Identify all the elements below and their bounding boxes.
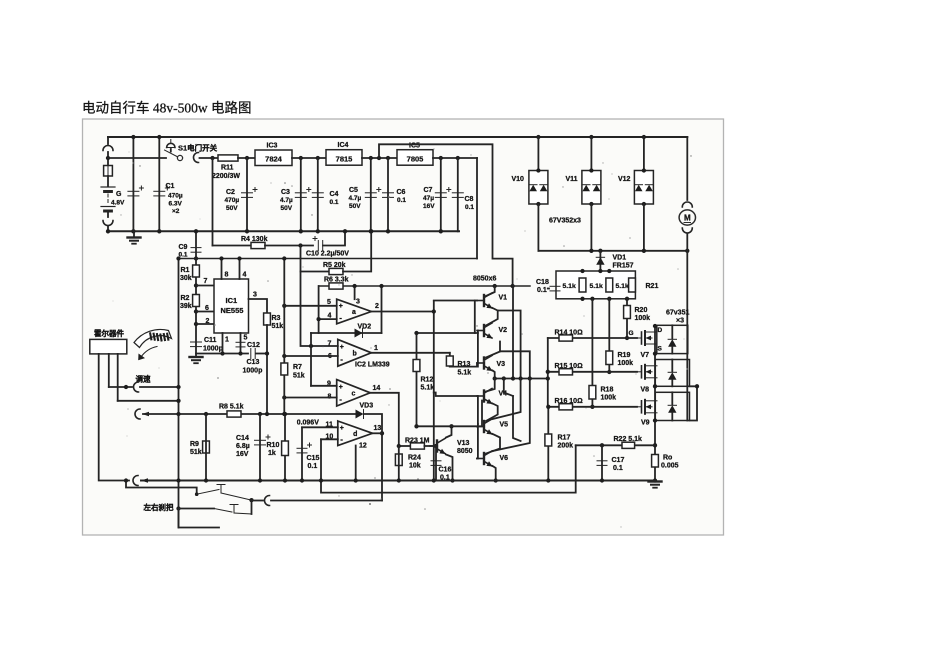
svg-text:1: 1 <box>225 337 229 344</box>
resistor R22 <box>622 442 635 448</box>
svg-text:3: 3 <box>253 292 257 299</box>
node box top c <box>607 269 611 273</box>
wire R12 vertical <box>416 333 418 426</box>
node gnd rail C2 <box>245 229 249 233</box>
wire C14 vertical <box>259 414 261 481</box>
capacitor C6 <box>383 193 394 198</box>
node gnd C5 <box>369 229 373 233</box>
resistor R14 <box>559 335 573 341</box>
svg-text:R23 1M: R23 1M <box>405 438 430 445</box>
wire V1 base feed <box>434 300 475 302</box>
wire col riser d <box>513 396 521 441</box>
svg-text:NE555: NE555 <box>221 306 244 315</box>
capacitor C11 <box>191 342 202 347</box>
regulator IC4 7815 box <box>326 150 362 166</box>
wire comp-d plus input <box>302 426 338 428</box>
wire C2 vertical <box>246 158 248 231</box>
wire hook to fuse <box>107 152 109 166</box>
node C17 top <box>600 443 604 447</box>
wire V3 base feed <box>450 363 477 367</box>
op-amp IC2c <box>337 380 371 406</box>
wire VD1 lead <box>599 251 601 271</box>
resistor R2 <box>193 295 200 307</box>
svg-text:R5 20k: R5 20k <box>323 262 346 269</box>
node bottom rail x285 <box>283 478 287 482</box>
MOSFET V9 <box>634 400 657 414</box>
wire C16 vertical <box>435 446 437 481</box>
svg-text:C12: C12 <box>247 342 260 349</box>
svg-text:50V: 50V <box>226 205 238 212</box>
node gnd C6 <box>386 229 390 233</box>
capacitor C13 <box>251 349 255 359</box>
node R23 left <box>397 444 401 448</box>
svg-text:7: 7 <box>204 278 208 285</box>
wire comp-c minus input <box>284 397 336 399</box>
svg-text:R1: R1 <box>181 267 190 274</box>
MOSFET V8 <box>634 365 657 379</box>
switch S1 blade <box>165 150 178 157</box>
node R4/R5 junction <box>298 243 302 247</box>
node bottom rail x602 <box>600 478 604 482</box>
svg-text:b: b <box>353 350 357 357</box>
wire diode V7 lead b <box>671 347 673 354</box>
svg-text:51k: 51k <box>190 449 202 456</box>
wire R14 row <box>548 337 627 339</box>
schematic frame <box>83 119 724 535</box>
svg-text:6.3V: 6.3V <box>169 201 183 208</box>
node box bottom d <box>625 297 629 301</box>
svg-text:16V: 16V <box>236 451 249 458</box>
wire comp-c out <box>370 393 399 446</box>
diode VD3 <box>356 410 364 419</box>
svg-text:R2: R2 <box>181 295 190 302</box>
node R8 row R7 <box>282 412 286 416</box>
svg-text:IC3: IC3 <box>267 143 278 150</box>
node C5 top <box>369 156 373 160</box>
brake switch 2 <box>214 505 252 515</box>
wire V4 base feed <box>434 393 477 397</box>
wire R5 to gnd <box>343 231 371 271</box>
svg-text:4.7µ: 4.7µ <box>349 195 362 202</box>
MOSFET V7 <box>634 331 657 345</box>
wire diode V8 lead b <box>671 380 673 387</box>
wire V6 emitter drop <box>493 466 496 481</box>
wire switch feed <box>108 157 166 159</box>
capacitor C4 <box>312 193 323 198</box>
wire V5 emitter chain <box>486 434 500 454</box>
wire VD2 anode drop <box>310 333 312 386</box>
svg-text:39k: 39k <box>180 303 192 310</box>
svg-text:R13: R13 <box>458 361 471 368</box>
node speed tap <box>176 385 180 389</box>
wire comp-d fb loop <box>321 439 576 492</box>
wire motor drop <box>686 137 688 200</box>
svg-text:C4: C4 <box>330 191 339 198</box>
svg-text:G: G <box>629 330 634 337</box>
motor M <box>679 210 695 225</box>
svg-text:8: 8 <box>225 272 229 279</box>
resistor R4 <box>251 242 265 248</box>
wire IC4 to IC5 <box>362 157 397 159</box>
wire source rail <box>654 325 656 480</box>
capacitor C1 cell b <box>154 186 170 196</box>
arrow into hook R8 row <box>142 412 149 416</box>
svg-text:VD3: VD3 <box>360 403 374 410</box>
node emitters to gates <box>546 376 550 380</box>
diode V12 right <box>645 185 653 192</box>
svg-text:V9: V9 <box>641 420 650 427</box>
wire C18 stub <box>548 288 549 290</box>
resistor R24 <box>395 454 402 466</box>
wire R4 to C10 <box>265 245 313 247</box>
svg-text:470µ: 470µ <box>225 197 240 204</box>
svg-text:7805: 7805 <box>407 154 424 163</box>
capacitor C8 <box>452 193 463 198</box>
connector hook motor bottom <box>682 228 692 233</box>
wire C8 vertical <box>457 158 459 231</box>
wire C7 vertical <box>440 158 442 231</box>
svg-text:+: + <box>339 303 343 310</box>
node hall row tap <box>176 399 180 403</box>
wire comp-a minus input <box>319 318 337 320</box>
wire base rail 15V <box>319 285 530 287</box>
node R15 left <box>546 370 550 374</box>
node gnd C10 <box>343 229 347 233</box>
wire V1 base link <box>475 301 477 334</box>
wire IC3 to IC4 <box>292 157 326 159</box>
diode across V8 <box>668 372 676 379</box>
wire brake stub L <box>179 509 220 528</box>
svg-text:67V352x3: 67V352x3 <box>549 218 581 225</box>
resistor R19 <box>606 351 613 365</box>
diode across V9 <box>668 405 676 412</box>
wire comp-d out stub <box>373 432 383 434</box>
node box bottom a <box>580 297 584 301</box>
wire VD2 row <box>311 332 382 334</box>
arrow into bottom hook <box>141 478 148 482</box>
wire R23 to base <box>424 445 435 447</box>
wire V2 base feed row <box>417 332 478 334</box>
wire ground stub <box>133 231 135 236</box>
capacitor C9 <box>191 248 201 253</box>
resistor R23 <box>410 443 424 449</box>
svg-text:51k: 51k <box>272 323 284 330</box>
node gate V7 <box>625 336 629 340</box>
resistor R7 <box>281 363 288 375</box>
svg-text:1k: 1k <box>268 450 276 457</box>
svg-text:V10: V10 <box>512 176 525 183</box>
resistor R6 <box>329 283 343 289</box>
wire V13 collector row <box>417 401 483 427</box>
capacitor C15 <box>297 443 312 453</box>
svg-text:R8 5.1k: R8 5.1k <box>219 404 244 411</box>
wire R1 chain vertical <box>195 259 197 357</box>
node V13 collector row <box>449 424 453 428</box>
node rail V1 <box>493 284 497 288</box>
svg-text:R11: R11 <box>221 165 234 172</box>
node bottom rail x321 <box>319 478 323 482</box>
svg-text:2200/3W: 2200/3W <box>212 173 240 180</box>
svg-text:C16: C16 <box>439 467 452 474</box>
resistor Ro <box>652 455 659 468</box>
wire V13 collector riser <box>446 426 452 437</box>
wire brake to hook <box>252 500 264 502</box>
diode V11 right <box>593 185 601 192</box>
diode pair V12 box <box>634 171 653 205</box>
svg-text:R3: R3 <box>272 315 281 322</box>
wire box2 right ext <box>690 386 698 420</box>
node drain top <box>653 324 657 328</box>
svg-text:C9: C9 <box>179 244 188 251</box>
wire V12 bottom lead <box>643 204 645 251</box>
svg-text:1000p: 1000p <box>203 346 223 353</box>
battery dashed middle <box>107 194 109 204</box>
node R17 top <box>546 405 550 409</box>
svg-text:+: + <box>339 384 343 391</box>
wire R17 vertical <box>547 407 549 481</box>
wire V4 base link <box>477 396 479 424</box>
capacitor C16 <box>431 461 441 466</box>
svg-text:5: 5 <box>244 335 248 342</box>
node rail C1a top <box>131 135 135 139</box>
svg-text:M: M <box>684 214 691 223</box>
wire comp-d minus input <box>321 438 338 440</box>
node V1 base net <box>432 309 436 313</box>
wire battery left drop <box>107 137 109 144</box>
node C3 top <box>299 156 303 160</box>
wire comp-b minus input <box>284 355 338 357</box>
svg-text:C1: C1 <box>166 183 175 190</box>
wire GND bottom rail <box>108 230 459 232</box>
node C8 top <box>456 156 460 160</box>
svg-text:V3: V3 <box>497 361 506 368</box>
wire switch to R11 <box>200 157 219 159</box>
regulator IC5 7805 box <box>397 150 433 166</box>
wire hall lead 3 <box>117 354 119 401</box>
connector hook motor top <box>682 202 692 207</box>
node 5V row at C9/R1 <box>194 256 198 260</box>
svg-text:0.1: 0.1 <box>330 199 339 206</box>
connector hook R8 row <box>135 409 140 419</box>
node C7 top <box>439 156 443 160</box>
resistor 5.1k c <box>629 278 636 292</box>
svg-text:100k: 100k <box>618 360 634 367</box>
svg-text:FR157: FR157 <box>613 263 634 270</box>
node 5V pin8 <box>219 256 223 260</box>
svg-text:C2: C2 <box>226 189 235 196</box>
svg-text:a: a <box>352 309 356 316</box>
svg-text:R9: R9 <box>190 441 199 448</box>
node R8 row R9 <box>204 412 208 416</box>
node gnd C9 <box>194 229 198 233</box>
svg-text:V5: V5 <box>500 422 509 429</box>
wire V3 emitter to row <box>493 371 495 379</box>
node bottom rail x548.3 <box>546 478 550 482</box>
node bus V11 <box>589 249 593 253</box>
svg-text:IC4: IC4 <box>338 142 349 149</box>
svg-text:V8: V8 <box>641 387 650 394</box>
wire bottom common rail <box>141 480 655 482</box>
node pin7 junction <box>194 283 198 287</box>
node src c <box>653 418 657 422</box>
svg-text:7824: 7824 <box>265 155 283 164</box>
wire V5 base link <box>476 424 479 427</box>
wire rail to row riser <box>512 286 514 379</box>
connector hook brake <box>265 496 270 506</box>
svg-text:2: 2 <box>375 303 379 310</box>
wire diode V9 lead b <box>671 413 673 421</box>
battery G plates top cell <box>101 187 115 192</box>
node row e4 <box>518 376 522 380</box>
svg-text:R14 10Ω: R14 10Ω <box>555 330 584 337</box>
wire comp-d gnd pin <box>355 446 357 481</box>
svg-text:12: 12 <box>359 443 367 450</box>
wire C3 vertical <box>300 158 302 231</box>
node rail V11 <box>589 135 593 139</box>
resistor R12 <box>413 360 420 372</box>
wire R8 row <box>143 413 355 415</box>
node C6 top <box>386 156 390 160</box>
node gnd C3 <box>299 229 303 233</box>
wire comp-b out <box>371 352 450 354</box>
resistor R8 <box>227 411 241 417</box>
wire R19 vertical <box>608 299 610 372</box>
svg-text:5.1k: 5.1k <box>563 283 576 290</box>
node bottom rail x398.8 <box>397 478 401 482</box>
capacitor C7 <box>435 188 451 198</box>
wire comp-a fb tap <box>354 286 356 299</box>
wire V1 collector <box>486 286 495 296</box>
svg-text:16V: 16V <box>423 203 435 210</box>
wire divider reference drop <box>301 272 338 347</box>
node gnd V13e <box>450 478 454 482</box>
gate resistor box <box>556 271 635 299</box>
node 5V pin4 <box>237 256 241 260</box>
node row e1 <box>493 376 497 380</box>
wire R3 down <box>266 325 268 414</box>
svg-text:C13: C13 <box>247 359 260 366</box>
svg-text:S: S <box>658 346 663 353</box>
svg-text:47µ: 47µ <box>423 195 434 202</box>
resistor 5.1k b <box>606 278 613 292</box>
svg-text:G: G <box>116 191 122 198</box>
node box2 ext <box>695 384 699 388</box>
resistor 5.1k a <box>579 278 586 292</box>
svg-text:4.8V: 4.8V <box>111 200 125 207</box>
wire diode V7 leads <box>671 325 673 338</box>
node pin5 bottom <box>238 351 242 355</box>
svg-text:C7: C7 <box>424 187 433 194</box>
svg-text:-: - <box>340 355 343 364</box>
wire V5 collector riser <box>493 379 521 420</box>
node rail V10 <box>536 135 540 139</box>
svg-text:R18: R18 <box>601 387 614 394</box>
wire R18 vertical <box>591 299 593 407</box>
node gate V8 node <box>607 370 611 374</box>
wire 48V tap down to R4 <box>212 158 214 246</box>
node row e5 <box>528 376 532 380</box>
svg-text:10k: 10k <box>409 463 421 470</box>
svg-text:7: 7 <box>328 341 332 348</box>
flyback box V7 <box>657 325 688 353</box>
wire pin5 drop <box>240 333 242 354</box>
wire hall lead3 row <box>118 400 179 402</box>
svg-text:1: 1 <box>374 345 378 352</box>
node C4 top <box>316 156 320 160</box>
wire V4 collector <box>486 379 495 392</box>
svg-text:c: c <box>351 390 355 397</box>
wire comp-c plus input <box>311 385 337 387</box>
capacitor C10 <box>313 237 323 251</box>
wire R22 row <box>576 444 655 446</box>
bell icon of switch S1 <box>167 140 175 152</box>
node R12 bottom <box>414 424 418 428</box>
wire phase bus <box>538 250 687 252</box>
svg-text:C18: C18 <box>536 279 549 286</box>
svg-text:0.005: 0.005 <box>661 463 679 470</box>
node gnd rail C1b <box>157 229 161 233</box>
node box bottom c <box>607 297 611 301</box>
node gnd C4 <box>316 229 320 233</box>
svg-text:R10: R10 <box>267 442 280 449</box>
svg-text:13: 13 <box>374 425 382 432</box>
diode pair V10 box <box>529 171 548 205</box>
svg-text:0.1: 0.1 <box>397 197 406 204</box>
svg-text:100k: 100k <box>601 395 617 402</box>
node V10 top <box>536 168 540 172</box>
wire C1a vertical <box>132 137 134 231</box>
node bottom rail x178.5 <box>176 478 180 482</box>
node 5V row left end <box>176 256 180 260</box>
resistor R17 <box>545 434 552 446</box>
wire hook to ground rail <box>107 226 109 231</box>
node gate V9 node <box>590 405 594 409</box>
wire V1 emitter chain <box>486 311 498 326</box>
resistor R20 <box>624 306 631 319</box>
svg-text:R21: R21 <box>646 283 659 290</box>
node R11 left / R4 tap <box>210 156 214 160</box>
wire pin6 <box>196 311 214 313</box>
svg-text:200k: 200k <box>558 443 574 450</box>
svg-text:6: 6 <box>205 305 209 312</box>
node bus motor <box>685 249 689 253</box>
resistor R3 <box>264 313 271 325</box>
svg-text:0.096V: 0.096V <box>297 420 320 427</box>
wire C6 vertical <box>387 158 389 231</box>
wire diode V9 leads <box>671 392 673 404</box>
node V11 top <box>589 168 593 172</box>
svg-text:+: + <box>340 344 344 351</box>
diode V12 left <box>635 185 643 192</box>
wire drain right link <box>686 325 688 420</box>
node src a <box>653 351 657 355</box>
svg-text:C10 2.2µ/50V: C10 2.2µ/50V <box>306 251 349 258</box>
node rail V12 <box>642 135 646 139</box>
wire R15 row <box>548 371 637 373</box>
svg-text:C17: C17 <box>612 457 625 464</box>
node pin2 junction <box>194 322 198 326</box>
wire R10 vertical <box>284 414 286 481</box>
svg-text:d: d <box>353 431 357 438</box>
wire col riser c <box>504 379 513 397</box>
capacitor C2 <box>242 188 258 198</box>
wire pin2 <box>196 323 214 325</box>
wire 5V feed drop <box>476 158 478 259</box>
node gnd rail at battery <box>106 229 110 233</box>
svg-text:C15: C15 <box>307 455 320 462</box>
node gnd C7 <box>439 229 443 233</box>
wire C4 vertical <box>317 158 319 231</box>
